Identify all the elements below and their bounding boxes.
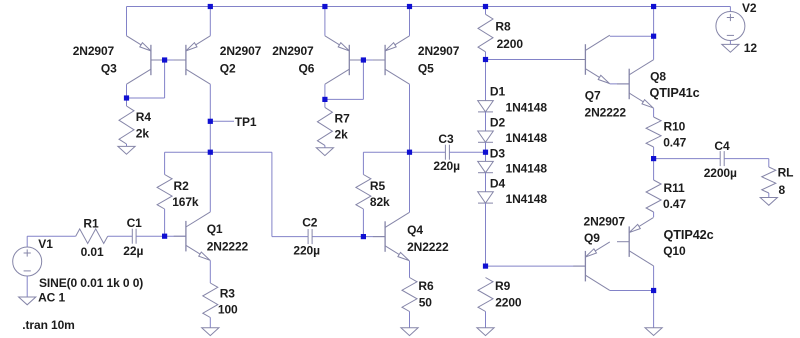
svg-text:2N2907: 2N2907 xyxy=(73,44,115,58)
svg-text:2N2222: 2N2222 xyxy=(407,240,449,254)
svg-text:Q10: Q10 xyxy=(663,244,686,258)
svg-text:1N4148: 1N4148 xyxy=(506,131,548,145)
svg-text:2N2222: 2N2222 xyxy=(585,106,627,120)
svg-text:Q5: Q5 xyxy=(418,61,434,75)
svg-text:R8: R8 xyxy=(495,20,511,34)
svg-text:R10: R10 xyxy=(664,119,686,133)
svg-text:D3: D3 xyxy=(490,146,506,160)
svg-text:R4: R4 xyxy=(136,110,152,124)
svg-text:2N2222: 2N2222 xyxy=(207,239,249,253)
svg-text:QTIP41c: QTIP41c xyxy=(650,86,700,100)
svg-text:Q1: Q1 xyxy=(207,222,223,236)
svg-text:Q6: Q6 xyxy=(299,61,315,75)
svg-text:2200: 2200 xyxy=(497,37,524,51)
svg-text:R5: R5 xyxy=(370,179,386,193)
svg-text:SINE(0 0.01 1k 0 0): SINE(0 0.01 1k 0 0) xyxy=(39,276,143,290)
svg-text:R7: R7 xyxy=(335,111,351,125)
svg-text:TP1: TP1 xyxy=(235,115,257,129)
svg-text:Q4: Q4 xyxy=(407,223,423,237)
svg-text:2N2907: 2N2907 xyxy=(418,44,460,58)
svg-text:C4: C4 xyxy=(714,139,730,153)
svg-text:8: 8 xyxy=(779,183,786,197)
svg-text:C3: C3 xyxy=(438,132,454,146)
svg-text:50: 50 xyxy=(419,295,433,309)
svg-text:82k: 82k xyxy=(370,195,390,209)
svg-text:AC 1: AC 1 xyxy=(38,290,65,304)
svg-text:0.47: 0.47 xyxy=(663,136,686,150)
svg-text:2k: 2k xyxy=(335,128,349,142)
svg-text:R1: R1 xyxy=(83,216,99,230)
svg-text:C1: C1 xyxy=(127,216,143,230)
svg-text:220µ: 220µ xyxy=(433,159,460,173)
svg-text:R3: R3 xyxy=(220,286,236,300)
svg-text:2k: 2k xyxy=(136,126,150,140)
svg-text:100: 100 xyxy=(218,302,238,316)
svg-text:Q3: Q3 xyxy=(101,61,117,75)
svg-text:1N4148: 1N4148 xyxy=(506,101,548,115)
svg-text:D2: D2 xyxy=(490,115,506,129)
svg-text:RL: RL xyxy=(778,166,794,180)
svg-text:167k: 167k xyxy=(172,195,199,209)
svg-text:.tran 10m: .tran 10m xyxy=(22,318,74,332)
svg-text:R6: R6 xyxy=(418,279,434,293)
svg-text:V1: V1 xyxy=(38,237,53,251)
svg-text:Q7: Q7 xyxy=(585,88,601,102)
svg-text:12: 12 xyxy=(744,41,758,55)
svg-text:D1: D1 xyxy=(490,85,506,99)
svg-text:220µ: 220µ xyxy=(293,244,320,258)
svg-text:2N2907: 2N2907 xyxy=(272,44,314,58)
svg-text:22µ: 22µ xyxy=(123,244,143,258)
svg-text:R11: R11 xyxy=(664,181,685,195)
svg-text:2N2907: 2N2907 xyxy=(584,214,626,228)
svg-text:V2: V2 xyxy=(742,1,757,15)
svg-text:0.47: 0.47 xyxy=(663,197,686,211)
svg-text:2200: 2200 xyxy=(495,295,522,309)
svg-text:1N4148: 1N4148 xyxy=(506,162,548,176)
svg-text:1N4148: 1N4148 xyxy=(506,192,548,206)
svg-text:C2: C2 xyxy=(302,216,318,230)
svg-text:R9: R9 xyxy=(495,279,511,293)
svg-text:Q9: Q9 xyxy=(584,231,600,245)
svg-text:0.01: 0.01 xyxy=(81,245,104,259)
svg-text:Q8: Q8 xyxy=(650,70,666,84)
svg-text:D4: D4 xyxy=(490,177,506,191)
svg-text:2N2907: 2N2907 xyxy=(220,44,262,58)
svg-text:2200µ: 2200µ xyxy=(704,166,737,180)
svg-text:R2: R2 xyxy=(174,179,190,193)
svg-text:Q2: Q2 xyxy=(220,61,236,75)
svg-text:QTIP42c: QTIP42c xyxy=(664,228,714,242)
